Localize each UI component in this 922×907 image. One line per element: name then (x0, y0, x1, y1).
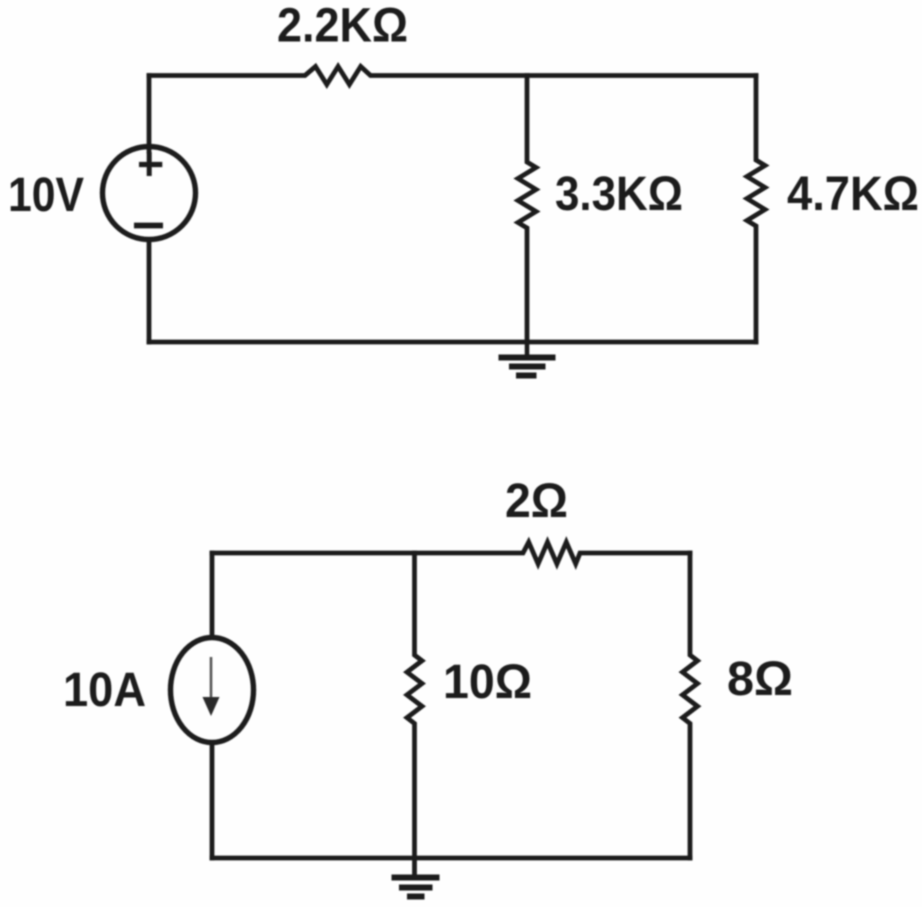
svg-text:2Ω: 2Ω (505, 475, 568, 528)
svg-text:10V: 10V (8, 169, 84, 222)
svg-text:4.7KΩ: 4.7KΩ (787, 168, 919, 221)
svg-text:10Ω: 10Ω (443, 656, 532, 709)
svg-text:3.3KΩ: 3.3KΩ (555, 168, 683, 221)
svg-text:2.2KΩ: 2.2KΩ (277, 0, 408, 53)
svg-text:8Ω: 8Ω (727, 653, 793, 706)
svg-text:10A: 10A (63, 664, 146, 717)
